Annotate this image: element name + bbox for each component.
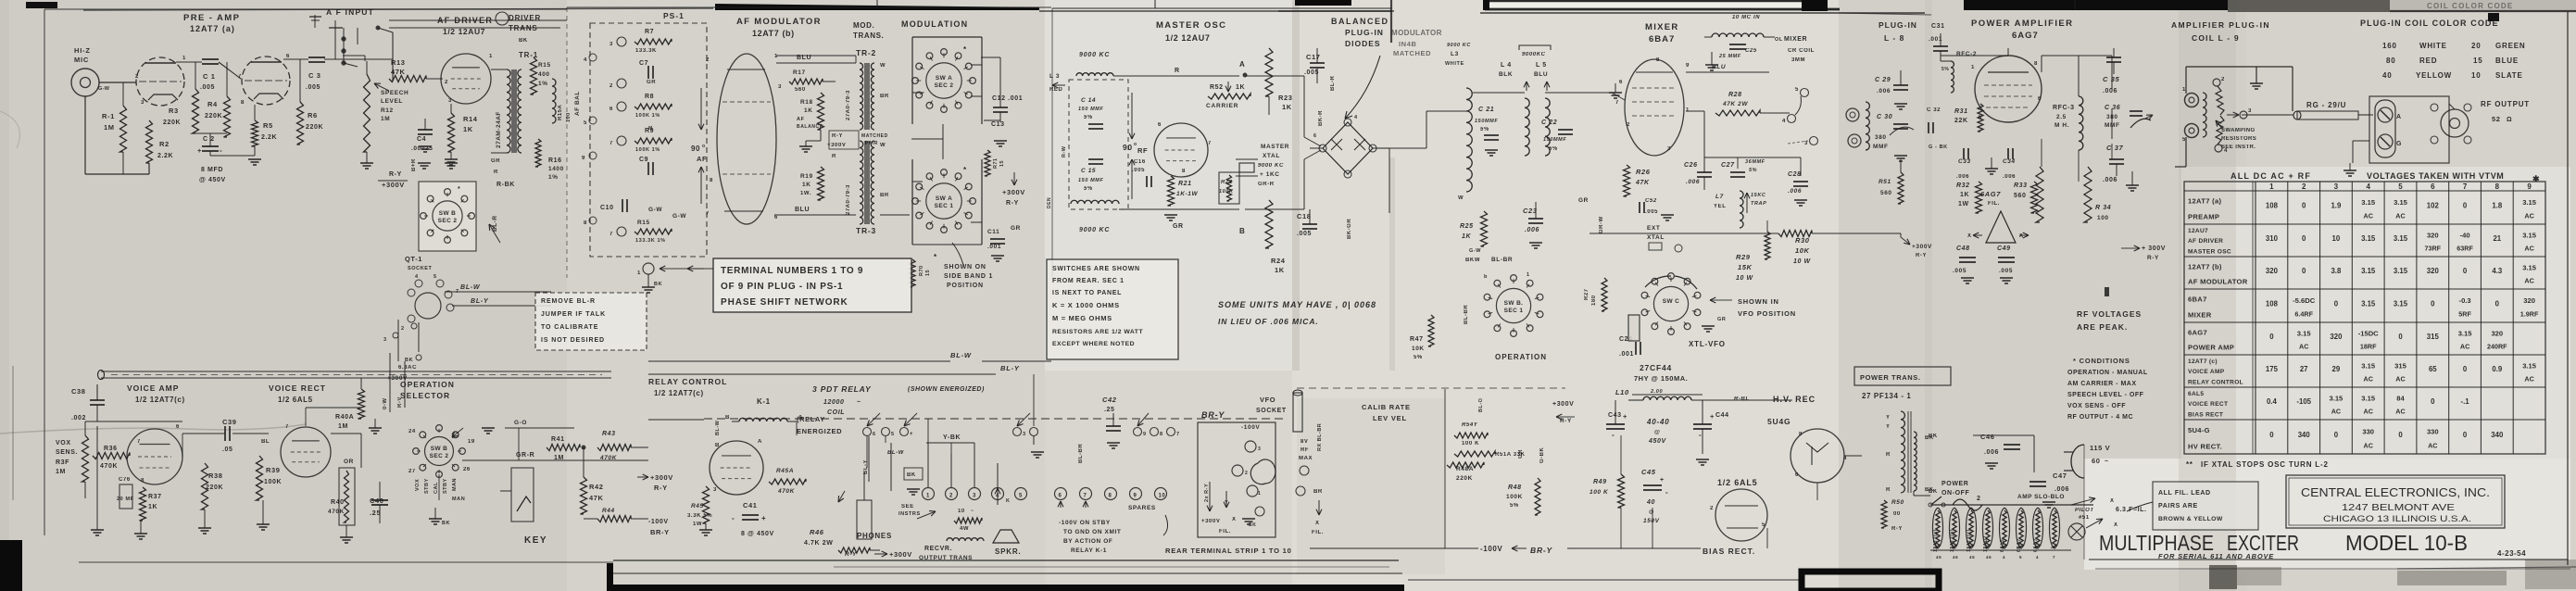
- svg-text:8: 8: [584, 220, 587, 226]
- title COLOR CODE: [2360, 19, 2499, 28]
- svg-text:1/2 6AL5: 1/2 6AL5: [278, 396, 313, 404]
- svg-text:4: 4: [1782, 119, 1786, 124]
- resistor R3F: [82, 421, 89, 498]
- wires socket down: [383, 320, 421, 363]
- phasing dash line: [1297, 387, 1565, 389]
- svg-text:2: 2: [609, 83, 613, 89]
- ground 6BA7: [1609, 83, 1622, 98]
- svg-text:6BA7: 6BA7: [1649, 34, 1675, 44]
- svg-text:FIL.: FIL.: [1988, 201, 2000, 207]
- svg-text:GR-W: GR-W: [1599, 216, 1604, 233]
- svg-text:10 W: 10 W: [1736, 275, 1754, 282]
- svg-text:9000KC: 9000KC: [1522, 52, 1546, 57]
- label -100V BR-Y: [1480, 545, 1553, 555]
- title MIXER 6BA7: [1645, 22, 1679, 44]
- wire R43 out: [631, 446, 648, 448]
- svg-text:2: 2: [1710, 506, 1714, 511]
- svg-text:G-W: G-W: [672, 213, 686, 220]
- svg-text:*: *: [963, 45, 967, 54]
- wire G-W: [648, 207, 662, 213]
- svg-text:6: 6: [2431, 182, 2435, 191]
- svg-text:1M: 1M: [104, 123, 115, 132]
- svg-text:9: 9: [582, 156, 585, 161]
- svg-text:3: 3: [448, 98, 452, 104]
- svg-text:BLU: BLU: [1712, 64, 1726, 70]
- box CENTRAL ELECTRONICS: [2286, 475, 2505, 528]
- subtitle serial: [2158, 552, 2274, 560]
- svg-text:1M: 1M: [56, 469, 66, 475]
- svg-text:PS-1: PS-1: [663, 11, 685, 20]
- svg-text:15: 15: [2473, 57, 2483, 65]
- wire b bus2: [1444, 389, 1446, 548]
- svg-text:8: 8: [1160, 432, 1163, 437]
- svg-text:0: 0: [2463, 431, 2468, 439]
- svg-text:.005: .005: [200, 84, 215, 91]
- svg-text:C28: C28: [1788, 171, 1802, 178]
- capacitor C14: [1078, 97, 1103, 129]
- label 6.3AC a: [387, 365, 417, 382]
- svg-text:320: 320: [2266, 267, 2279, 275]
- vfo socket pins: [1232, 441, 1275, 528]
- svg-text:2: 2: [1245, 471, 1248, 476]
- svg-text:POWER: POWER: [1941, 481, 1968, 487]
- svg-text:133.3K: 133.3K: [635, 48, 657, 54]
- svg-text:*: *: [458, 186, 460, 193]
- ground selector: [369, 419, 450, 526]
- svg-text:GR: GR: [1518, 449, 1524, 459]
- svg-text:BY ACTION OF: BY ACTION OF: [1063, 538, 1112, 545]
- svg-text:5U4G: 5U4G: [1767, 417, 1791, 426]
- svg-text:310: 310: [2266, 234, 2279, 243]
- resistor R1: [102, 82, 127, 174]
- svg-text:XTAL: XTAL: [1263, 153, 1280, 159]
- svg-text:BK: BK: [654, 282, 662, 287]
- svg-text:150MMF: 150MMF: [1475, 119, 1498, 124]
- capacitor C47: [2029, 472, 2069, 508]
- svg-text:@ 450V: @ 450V: [199, 177, 226, 183]
- ground voice: [91, 426, 147, 539]
- resistor R49: [1590, 474, 1625, 508]
- relay coil K-1: [715, 415, 803, 435]
- svg-text:C10: C10: [600, 205, 614, 211]
- svg-text:R 34: R 34: [2095, 205, 2111, 211]
- svg-text:POWER TRANS.: POWER TRANS.: [1860, 373, 1921, 382]
- svg-text:X: X: [1232, 517, 1237, 522]
- svg-text:SEE INSTR.: SEE INSTR.: [2221, 145, 2256, 150]
- label 90 AF: [691, 88, 707, 204]
- wires diode ring: [1310, 148, 1389, 213]
- svg-text:2: 2: [1627, 122, 1630, 128]
- svg-text:VOX SENS - OFF: VOX SENS - OFF: [2067, 403, 2126, 409]
- svg-text:220K: 220K: [306, 124, 323, 131]
- svg-text:-0.3: -0.3: [2459, 296, 2471, 305]
- svg-text:8: 8: [141, 478, 145, 484]
- svg-text:18RF: 18RF: [2360, 343, 2377, 351]
- svg-text:1: 1: [926, 494, 930, 499]
- svg-text:C42: C42: [1102, 396, 1117, 404]
- svg-text:340: 340: [2298, 431, 2311, 439]
- transformer TR-2: [846, 63, 889, 130]
- svg-text:BR: BR: [880, 94, 889, 99]
- svg-text:7: 7: [285, 424, 289, 430]
- svg-text:RF: RF: [1301, 447, 1309, 453]
- svg-text:.002: .002: [71, 415, 86, 421]
- wire bottom GR to B: [1119, 209, 1245, 235]
- svg-text:5%: 5%: [1510, 503, 1519, 509]
- svg-text:IF XTAL STOPS OSC TURN L-2: IF XTAL STOPS OSC TURN L-2: [2201, 460, 2329, 469]
- label BR-Y vfo: [1201, 390, 1324, 535]
- resistor R22: [1219, 172, 1239, 204]
- svg-text:R26: R26: [1636, 168, 1651, 176]
- svg-text:VOX: VOX: [415, 479, 421, 491]
- svg-text:10K: 10K: [1412, 346, 1425, 352]
- svg-text:240RF: 240RF: [2487, 343, 2507, 351]
- svg-text:3: 3: [141, 100, 145, 106]
- svg-text:1/2 12AU7: 1/2 12AU7: [443, 27, 485, 36]
- svg-text:180: 180: [1591, 295, 1597, 306]
- svg-text:SPKR.: SPKR.: [995, 547, 1021, 556]
- label R-W vert: [1047, 145, 1067, 208]
- svg-text:R: R: [1886, 487, 1891, 493]
- svg-text:4: 4: [2003, 555, 2005, 560]
- label 12000 coil: [823, 399, 861, 416]
- AF input jack: [309, 15, 393, 82]
- capacitor C13: [991, 121, 1005, 128]
- svg-text:R48A: R48A: [1456, 466, 1474, 472]
- svg-text:3.15: 3.15: [2330, 395, 2344, 403]
- svg-text:CAL: CAL: [434, 482, 439, 494]
- svg-text:*: *: [934, 253, 937, 261]
- svg-text:10K: 10K: [1795, 246, 1810, 255]
- svg-text:320: 320: [2427, 267, 2440, 275]
- svg-text:C39: C39: [222, 418, 237, 426]
- svg-text:1K: 1K: [1282, 103, 1292, 111]
- small tube cartridge: [1628, 315, 1640, 341]
- svg-text:POWER AMP: POWER AMP: [2188, 344, 2234, 352]
- svg-text:-: -: [1665, 488, 1668, 497]
- ac plug: [2064, 444, 2110, 478]
- ground C40: [340, 525, 353, 543]
- title VOICE RECT: [269, 384, 326, 404]
- coil L3 master: [1049, 73, 1113, 93]
- svg-text:L10: L10: [1615, 388, 1629, 396]
- wire l9 line: [2247, 104, 2455, 163]
- label R-Y +300V bottom: [845, 550, 912, 559]
- note CONDITIONS: [2067, 357, 2148, 421]
- svg-text:1: 1: [1258, 491, 1261, 497]
- svg-text:R21: R21: [1178, 181, 1192, 187]
- svg-text:SEC 2: SEC 2: [935, 82, 954, 89]
- svg-text:0: 0: [2431, 397, 2435, 406]
- svg-text:25 MMF: 25 MMF: [1718, 54, 1741, 59]
- svg-text:CR COIL: CR COIL: [1788, 48, 1815, 54]
- plug-in L8 jacks: [1846, 102, 1869, 150]
- svg-text:MIC: MIC: [74, 56, 89, 64]
- tube V4 6BA7: [1615, 57, 1690, 156]
- svg-text:SOME UNITS MAY HAVE , 0| 00: SOME UNITS MAY HAVE , 0| 0068: [1218, 300, 1376, 309]
- svg-text:SPEECH LEVEL - OFF: SPEECH LEVEL - OFF: [2067, 392, 2144, 398]
- svg-text:RED: RED: [1049, 87, 1063, 93]
- capacitor C11: [987, 225, 1021, 261]
- resistor R47: [1410, 315, 1434, 360]
- svg-text:BL-BR: BL-BR: [1078, 444, 1084, 463]
- svg-text:FIL.: FIL.: [1312, 530, 1324, 535]
- svg-text:6: 6: [1619, 80, 1623, 85]
- svg-text:3: 3: [383, 337, 387, 343]
- svg-text:TR-1: TR-1: [519, 51, 538, 59]
- svg-text:3.15: 3.15: [2361, 198, 2376, 207]
- resistor R70: [910, 259, 931, 287]
- svg-text:C76: C76: [119, 477, 131, 483]
- svg-text:9: 9: [1686, 63, 1690, 69]
- svg-text:IN LIEU OF .006 MICA.: IN LIEU OF .006 MICA.: [1218, 317, 1319, 326]
- svg-text:QT-1: QT-1: [405, 255, 422, 263]
- svg-text:BALANCE: BALANCE: [797, 124, 823, 130]
- svg-text:AC: AC: [2524, 375, 2533, 384]
- svg-text:10: 10: [958, 509, 965, 514]
- ground L9: [2250, 67, 2263, 89]
- ground preamp: [210, 151, 261, 165]
- connector A G: [2369, 96, 2449, 163]
- svg-text:+300V: +300V: [1912, 244, 1932, 250]
- svg-text:XTL-VFO: XTL-VFO: [1689, 340, 1726, 348]
- svg-text:C47: C47: [2053, 472, 2067, 480]
- svg-text:AC: AC: [2395, 408, 2405, 416]
- svg-text:80: 80: [2386, 57, 2396, 65]
- svg-text:6AL5: 6AL5: [2188, 391, 2204, 397]
- svg-text:5%: 5%: [1084, 115, 1093, 120]
- label GR mixer: [1578, 197, 1604, 233]
- svg-text:108: 108: [2266, 300, 2279, 308]
- svg-text:R12: R12: [381, 107, 394, 114]
- svg-text:1: 1: [774, 54, 778, 59]
- svg-text:560: 560: [1880, 190, 1892, 196]
- svg-text:C 14: C 14: [1081, 97, 1096, 104]
- svg-text:C 21: C 21: [1478, 107, 1494, 113]
- resistor R32: [1956, 182, 1982, 213]
- title MULTIPHASE EXCITER: [2099, 531, 2468, 555]
- svg-text:3: 3: [2334, 182, 2339, 191]
- svg-text:~: ~: [857, 399, 861, 406]
- svg-text:AC: AC: [2524, 212, 2533, 220]
- arrow fil box: [2127, 502, 2153, 511]
- svg-text:.001: .001: [1619, 351, 1634, 358]
- svg-text:HI-Z: HI-Z: [74, 46, 91, 55]
- svg-text:SELECTOR: SELECTOR: [400, 391, 450, 400]
- label +300V RY modulator: [1002, 172, 1025, 207]
- svg-text:BK: BK: [519, 38, 528, 44]
- svg-text:+300V: +300V: [1201, 519, 1221, 524]
- label XTL-VFO: [1689, 340, 1726, 348]
- phones jack: [857, 500, 892, 540]
- capacitor C41: [732, 501, 774, 537]
- svg-text:L 5: L 5: [1536, 62, 1547, 69]
- svg-text:12AT7 (a): 12AT7 (a): [2188, 197, 2221, 206]
- svg-text:470K: 470K: [599, 455, 618, 461]
- svg-text:Ω: Ω: [2507, 117, 2512, 123]
- svg-text:(RELAY: (RELAY: [797, 415, 825, 423]
- svg-text:8: 8: [1656, 57, 1660, 63]
- box REMOVE BL-R: [535, 293, 647, 350]
- svg-text:AM CARRIER - MAX: AM CARRIER - MAX: [2067, 381, 2137, 387]
- svg-text:R29: R29: [1736, 253, 1751, 261]
- svg-text:R-W: R-W: [1062, 145, 1067, 157]
- svg-text:C48: C48: [1956, 245, 1970, 252]
- svg-text:46: 46: [1986, 555, 1992, 560]
- svg-text:1K: 1K: [804, 107, 813, 114]
- wire pa top: [1941, 56, 2112, 96]
- svg-text:1400: 1400: [548, 166, 564, 172]
- svg-text:+300V: +300V: [650, 473, 673, 482]
- label RFC-2: [1941, 51, 1977, 93]
- svg-text:AMPLIFIER PLUG-IN: AMPLIFIER PLUG-IN: [2171, 20, 2270, 30]
- PS-1 bottom pin: [637, 263, 704, 293]
- resistor R41: [547, 436, 580, 461]
- PS-1 R8: [609, 94, 672, 119]
- svg-text:HV RECT.: HV RECT.: [2188, 442, 2222, 450]
- svg-text:R-Y: R-Y: [845, 551, 857, 558]
- wire relay drops: [869, 374, 1034, 491]
- svg-text:+: +: [1623, 412, 1627, 421]
- sheet D top border: [1839, 13, 1931, 15]
- svg-text:MIXER: MIXER: [1645, 22, 1679, 32]
- svg-text:27A0-79-3: 27A0-79-3: [846, 90, 851, 120]
- labels BL-Y BL-W vert: [863, 450, 905, 474]
- svg-text:3: 3: [778, 84, 782, 90]
- svg-text:29: 29: [2332, 365, 2341, 373]
- svg-text:C27: C27: [1721, 162, 1735, 169]
- svg-text:1M: 1M: [554, 455, 564, 461]
- svg-text:C38: C38: [71, 387, 86, 396]
- svg-text:3.15: 3.15: [2522, 232, 2537, 240]
- resistor R24: [1265, 200, 1286, 274]
- transformer TR-1: [491, 69, 521, 175]
- capacitor C52: [1640, 198, 1674, 220]
- svg-text:6: 6: [176, 424, 180, 430]
- label 6.3 AC b: [0, 0, 1, 1]
- svg-text:L 4: L 4: [1501, 62, 1512, 69]
- svg-text:12AT7 (a): 12AT7 (a): [190, 24, 235, 33]
- capacitor C2: [195, 133, 227, 183]
- tube V2 12AU7 driver: [441, 54, 493, 104]
- capacitor C32: [1927, 107, 1941, 133]
- svg-text:1K: 1K: [1236, 84, 1245, 91]
- svg-text:R: R: [832, 154, 836, 159]
- svg-text:340: 340: [2491, 431, 2504, 439]
- svg-text:C 1: C 1: [203, 72, 215, 81]
- svg-text:R39: R39: [266, 466, 281, 474]
- svg-text:R24: R24: [1271, 257, 1286, 265]
- label R-BK: [489, 182, 515, 243]
- label R40A: [335, 389, 365, 430]
- svg-text:C9: C9: [639, 157, 648, 163]
- svg-text:10: 10: [1159, 494, 1166, 499]
- svg-text:OR: OR: [344, 459, 354, 465]
- label 10MC IN: [1732, 15, 1760, 20]
- wire af feed: [343, 56, 365, 61]
- resistor R40: [328, 468, 355, 525]
- svg-text:Y-BK: Y-BK: [943, 434, 961, 441]
- svg-text:100K: 100K: [1506, 494, 1523, 500]
- switch SW-C: [1641, 273, 1701, 335]
- svg-text:POSITION: POSITION: [947, 283, 984, 289]
- vfo socket box: [1198, 396, 1287, 537]
- labels BL-R BK-R: [1318, 76, 1336, 126]
- svg-text:5: 5: [584, 120, 587, 126]
- BK box: [904, 468, 923, 495]
- svg-text:7: 7: [1615, 100, 1619, 106]
- svg-text:-100V: -100V: [1241, 424, 1260, 431]
- svg-text:45: 45: [1936, 555, 1941, 560]
- svg-text:+300V: +300V: [1002, 188, 1025, 196]
- svg-text:VFO POSITION: VFO POSITION: [1738, 309, 1796, 318]
- tick mark: [2105, 287, 2109, 296]
- label MOD TRANS: [853, 21, 884, 40]
- svg-text:C 2: C 2: [203, 136, 215, 143]
- capacitor C36: [2105, 105, 2153, 129]
- svg-text:SIDE BAND 1: SIDE BAND 1: [944, 273, 993, 280]
- svg-text:12AU7: 12AU7: [1983, 535, 1989, 552]
- svg-text:12AT7 (c): 12AT7 (c): [2188, 358, 2218, 365]
- svg-text:MODULATOR: MODULATOR: [1391, 29, 1442, 37]
- label OPERATION: [1495, 353, 1547, 361]
- wire ring out: [1376, 111, 1466, 148]
- svg-text:2: 2: [445, 80, 448, 85]
- svg-text:LEVEL: LEVEL: [381, 98, 403, 105]
- label 9000KC top: [1079, 52, 1110, 58]
- svg-text:5%: 5%: [1549, 146, 1558, 152]
- tube V2b master osc: [1154, 122, 1212, 177]
- wire swa links: [880, 124, 943, 215]
- label R-Y +300V sheetB: [378, 171, 408, 189]
- coil L3 mixer: [1445, 43, 1472, 201]
- resistor R17: [789, 69, 836, 93]
- coil L7 trap: [1714, 191, 1766, 228]
- tube V3 AF modulator: [706, 54, 782, 224]
- resistor R38: [202, 463, 224, 509]
- svg-text:10: 10: [2332, 234, 2341, 243]
- svg-text:15KC: 15KC: [1751, 193, 1766, 198]
- svg-text:SHOWN ON: SHOWN ON: [944, 264, 986, 270]
- svg-text:.25: .25: [1104, 407, 1115, 413]
- svg-text:8: 8: [1182, 169, 1186, 174]
- svg-text:470K: 470K: [328, 509, 345, 515]
- svg-text:9000 KC: 9000 KC: [1079, 227, 1110, 233]
- svg-text:RED: RED: [2419, 57, 2437, 65]
- svg-text:R45A: R45A: [776, 468, 794, 474]
- svg-text:6: 6: [774, 215, 778, 220]
- box SWITCHES NOTE: [1047, 259, 1178, 359]
- svg-text:MODULATION: MODULATION: [901, 19, 968, 29]
- svg-text:C13: C13: [991, 121, 1005, 128]
- svg-text:R51: R51: [1879, 179, 1891, 185]
- capacitor C43: [1606, 400, 1627, 439]
- resistor R4: [205, 62, 231, 137]
- svg-text:MATCHED: MATCHED: [861, 133, 888, 139]
- svg-text:7: 7: [609, 141, 613, 146]
- svg-text:R-Y: R-Y: [2147, 255, 2159, 261]
- label BL-BR vfo: [1078, 444, 1084, 463]
- svg-text:SWITCHES ARE SHOWN: SWITCHES ARE SHOWN: [1052, 266, 1140, 272]
- label G-O: [505, 420, 574, 428]
- svg-text:RELAY K-1: RELAY K-1: [1071, 547, 1107, 554]
- resistor R71: [985, 150, 1005, 176]
- svg-text:C34: C34: [2003, 158, 2016, 165]
- svg-text:0: 0: [2463, 202, 2468, 210]
- svg-text:R37: R37: [148, 494, 162, 500]
- svg-text:.006: .006: [1984, 449, 1999, 456]
- svg-text:.001: .001: [987, 244, 1001, 250]
